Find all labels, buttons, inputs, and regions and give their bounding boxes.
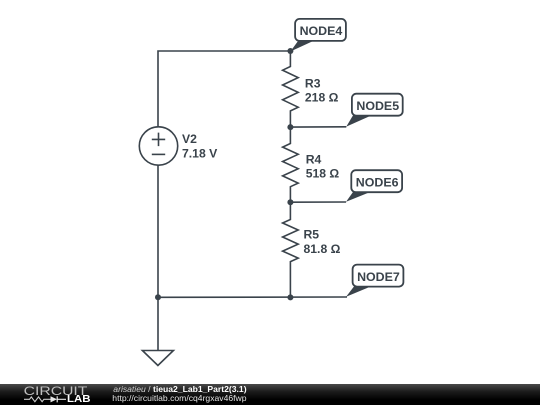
voltage source V2 [139,127,177,165]
svg-text:V2: V2 [182,132,197,146]
node NODE6 [346,170,402,202]
resistor R3 [283,51,299,127]
wire [290,201,346,203]
wire junction [287,124,293,130]
node NODE4 [290,19,346,52]
svg-text:LAB: LAB [67,394,91,405]
svg-text:NODE5: NODE5 [356,101,399,113]
ground [142,297,173,365]
svg-text:R3: R3 [305,77,321,91]
svg-text:http://circuitlab.com/cq4rgxav: http://circuitlab.com/cq4rgxav46fwp [112,393,246,403]
svg-text:218 Ω: 218 Ω [305,90,339,104]
footer bar [0,384,540,405]
wire [158,296,347,298]
svg-text:R4: R4 [306,153,322,167]
wire junction [287,199,293,205]
svg-text:7.18 V: 7.18 V [182,146,218,160]
svg-text:81.8 Ω: 81.8 Ω [304,242,341,256]
CircuitLab logo [24,384,91,405]
svg-text:518 Ω: 518 Ω [306,167,340,181]
wire junction [287,48,293,54]
svg-text:NODE7: NODE7 [357,272,400,284]
wire [290,126,346,128]
node NODE7 [346,265,403,297]
resistor R5 [283,202,299,278]
wire junction [155,294,161,300]
wire junction [287,294,293,300]
wire [158,51,290,127]
svg-text:NODE4: NODE4 [300,26,343,38]
wire [157,165,159,297]
wire [289,278,291,297]
svg-text:NODE6: NODE6 [356,177,399,189]
node NODE5 [346,94,402,127]
resistor R4 [283,127,299,202]
svg-text:R5: R5 [304,228,320,242]
